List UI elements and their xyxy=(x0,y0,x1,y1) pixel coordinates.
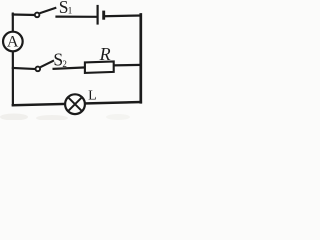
lamp L cross stroke 2 xyxy=(68,97,82,111)
svg-text:R: R xyxy=(99,44,111,64)
left rail wire xyxy=(12,14,14,106)
wire top-left (battery+ to S1) xyxy=(13,13,35,16)
lamp L cross stroke 1 xyxy=(68,97,82,111)
battery long plate xyxy=(96,5,98,25)
switch S1 contact xyxy=(35,13,40,18)
middle branch wire left xyxy=(13,68,35,69)
bottom wire xyxy=(13,102,141,105)
paper smudge bottom-right xyxy=(106,114,130,120)
switch S2 contact xyxy=(36,67,41,72)
resistor R body xyxy=(85,61,114,73)
paper smudge bottom-left xyxy=(0,114,28,121)
svg-text:L: L xyxy=(88,89,97,104)
svg-text:1: 1 xyxy=(68,6,73,16)
switch S1 blade xyxy=(40,8,57,14)
svg-text:2: 2 xyxy=(62,59,67,69)
right rail wire xyxy=(139,15,142,103)
lamp L body xyxy=(65,94,85,114)
paper background xyxy=(0,0,149,120)
middle branch wire mid (S2 to R) xyxy=(54,67,86,68)
wire top-mid (S1 to battery) xyxy=(57,16,97,18)
svg-text:A: A xyxy=(7,33,19,50)
battery short plate xyxy=(102,11,105,20)
wire top-right (battery to right rail) xyxy=(104,14,141,17)
switch S2 blade xyxy=(40,60,54,67)
paper smudge bottom-mid xyxy=(36,115,68,121)
middle branch wire right (R to right rail) xyxy=(114,64,141,67)
ammeter A body xyxy=(3,32,23,52)
